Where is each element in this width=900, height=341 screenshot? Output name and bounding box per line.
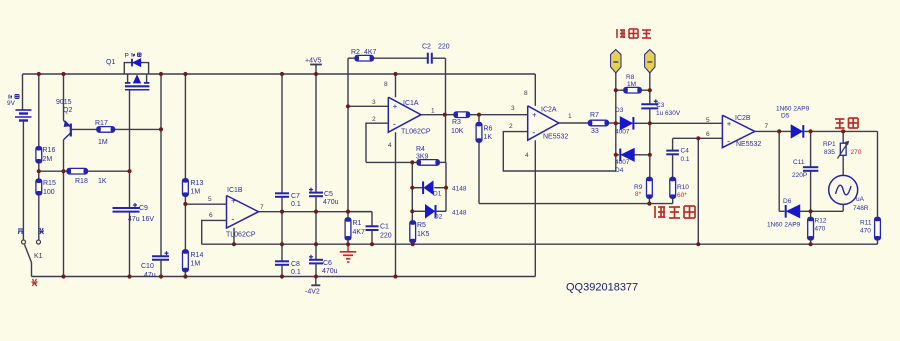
svg-text:R18: R18 (75, 178, 88, 185)
svg-text:C2: C2 (422, 44, 431, 51)
svg-text:1N60 2AP9: 1N60 2AP9 (767, 222, 801, 229)
svg-text:-: - (727, 136, 730, 146)
svg-text:R16: R16 (43, 147, 56, 154)
svg-text:C10: C10 (141, 263, 154, 270)
svg-text:3: 3 (372, 99, 376, 106)
svg-text:R2: R2 (351, 49, 360, 56)
svg-text:TL062CP: TL062CP (226, 232, 256, 239)
svg-text:+4V5: +4V5 (305, 58, 322, 65)
svg-text:C8: C8 (291, 261, 300, 268)
svg-text:1K5: 1K5 (417, 231, 430, 238)
svg-text:-: - (393, 119, 396, 129)
svg-text:47u 16V: 47u 16V (128, 216, 154, 223)
svg-text:7: 7 (260, 204, 264, 211)
svg-text:0.1: 0.1 (681, 156, 690, 163)
svg-text:220: 220 (438, 44, 450, 51)
svg-text:R9: R9 (634, 184, 643, 191)
svg-text:1M: 1M (98, 139, 108, 146)
svg-text:R12: R12 (815, 218, 827, 225)
svg-text:8: 8 (524, 90, 528, 97)
svg-text:4007: 4007 (615, 129, 630, 136)
svg-text:-4V2: -4V2 (305, 289, 320, 296)
svg-text:NE5532: NE5532 (736, 141, 761, 148)
svg-text:4K7: 4K7 (353, 229, 366, 236)
svg-text:4148: 4148 (452, 186, 467, 193)
svg-text:0.1: 0.1 (291, 269, 301, 276)
svg-text:IC2A: IC2A (541, 107, 557, 114)
svg-text:C4: C4 (681, 148, 690, 155)
svg-text:1K: 1K (98, 178, 107, 185)
svg-text:C1: C1 (380, 224, 389, 231)
svg-text:C3: C3 (656, 102, 665, 109)
svg-text:9015: 9015 (56, 99, 72, 106)
svg-text:0.1: 0.1 (291, 201, 301, 208)
svg-text:2M: 2M (43, 156, 53, 163)
svg-text:4K7: 4K7 (364, 49, 377, 56)
svg-text:2: 2 (372, 116, 376, 123)
svg-text:33: 33 (591, 128, 599, 135)
svg-text:R1: R1 (353, 220, 362, 227)
svg-text:R6: R6 (484, 126, 493, 133)
svg-text:uA: uA (856, 196, 865, 203)
svg-text:6: 6 (706, 131, 710, 138)
svg-text:4148: 4148 (452, 210, 467, 217)
svg-text:R8: R8 (626, 74, 635, 81)
svg-text:R17: R17 (95, 120, 108, 127)
svg-text:1M: 1M (191, 189, 201, 196)
svg-text:270: 270 (851, 149, 862, 156)
svg-text:R7: R7 (590, 112, 599, 119)
svg-text:TL062CP: TL062CP (401, 129, 431, 136)
svg-text:4: 4 (388, 142, 392, 149)
svg-text:R14: R14 (191, 252, 204, 259)
svg-text:4: 4 (525, 152, 529, 159)
svg-text:100: 100 (43, 189, 55, 196)
svg-text:IC1A: IC1A (403, 100, 419, 107)
svg-text:P: P (125, 53, 129, 60)
svg-text:D6: D6 (783, 198, 792, 205)
svg-text:47u: 47u (144, 272, 156, 279)
svg-text:D1: D1 (433, 191, 442, 198)
svg-text:-: - (532, 128, 535, 138)
svg-text:IC1B: IC1B (227, 187, 243, 194)
svg-text:Q2: Q2 (63, 107, 72, 114)
svg-text:2: 2 (509, 123, 513, 130)
svg-text:1M: 1M (627, 81, 636, 88)
svg-text:D2: D2 (434, 214, 443, 221)
svg-text:IC2B: IC2B (735, 115, 751, 122)
svg-text:470: 470 (860, 228, 871, 235)
svg-text:6: 6 (209, 212, 213, 219)
svg-text:NE5532: NE5532 (543, 134, 568, 141)
svg-text:C11: C11 (793, 159, 805, 166)
svg-text:QQ392018377: QQ392018377 (566, 282, 638, 294)
svg-text:3K9: 3K9 (416, 153, 429, 160)
svg-text:1M: 1M (191, 261, 201, 268)
svg-text:8: 8 (384, 81, 388, 88)
svg-text:60*: 60* (677, 192, 687, 199)
svg-text:Q1: Q1 (106, 59, 115, 66)
svg-text:C7: C7 (291, 193, 300, 200)
svg-text:1K: 1K (484, 134, 493, 141)
svg-text:220: 220 (380, 233, 392, 240)
svg-text:835: 835 (824, 149, 835, 156)
svg-text:D5: D5 (781, 113, 790, 120)
svg-text:C5: C5 (324, 191, 333, 198)
svg-text:+: + (532, 110, 537, 119)
svg-text:220P: 220P (792, 172, 807, 179)
svg-text:+: + (727, 120, 732, 129)
svg-text:C6: C6 (323, 260, 332, 267)
svg-text:+: + (231, 196, 236, 205)
svg-text:1N60 2AP9: 1N60 2AP9 (776, 106, 810, 113)
svg-text:R13: R13 (191, 180, 204, 187)
svg-text:10K: 10K (451, 128, 464, 135)
svg-text:7: 7 (765, 123, 769, 130)
svg-text:1u 630V: 1u 630V (656, 110, 681, 117)
svg-text:470: 470 (815, 226, 826, 233)
svg-text:9V: 9V (7, 100, 16, 107)
svg-text:748R: 748R (853, 205, 869, 212)
svg-text:3: 3 (511, 105, 515, 112)
svg-text:470u: 470u (323, 199, 339, 206)
svg-text:470u: 470u (322, 268, 338, 275)
svg-text:-: - (231, 214, 234, 224)
svg-text:8*: 8* (635, 191, 642, 198)
svg-text:RP1: RP1 (823, 141, 836, 148)
svg-text:5: 5 (208, 196, 212, 203)
svg-text:+: + (393, 102, 398, 111)
svg-text:R15: R15 (43, 180, 56, 187)
svg-text:K1: K1 (34, 253, 43, 260)
svg-text:1: 1 (568, 113, 572, 120)
svg-text:D3: D3 (615, 107, 624, 114)
svg-text:R4: R4 (416, 146, 425, 153)
svg-text:5: 5 (706, 117, 710, 124)
svg-text:D4: D4 (615, 167, 624, 174)
svg-text:4007: 4007 (615, 159, 630, 166)
svg-text:R10: R10 (677, 184, 689, 191)
svg-text:R5: R5 (417, 222, 426, 229)
svg-text:1: 1 (431, 108, 435, 115)
svg-text:R3: R3 (452, 119, 461, 126)
svg-text:R11: R11 (860, 220, 872, 227)
svg-text:C9: C9 (139, 205, 148, 212)
